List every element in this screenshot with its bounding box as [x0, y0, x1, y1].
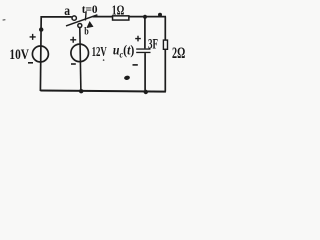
- stray speck top left: [3, 19, 6, 21]
- svg-text:uc(t): uc(t): [113, 43, 134, 61]
- junction dot on left branch: [39, 27, 43, 31]
- capacitor 3F bottom plate: [136, 52, 150, 53]
- voltage source 12V: [71, 44, 89, 62]
- node a: [72, 16, 76, 20]
- resistor R1 1ohm box: [113, 16, 129, 20]
- wire: right branch lower: [164, 50, 166, 92]
- speck after 12V: [103, 59, 105, 61]
- switch arrow head: [86, 21, 93, 28]
- wire: bottom rail: [40, 91, 165, 92]
- plus sign uc: [135, 36, 141, 42]
- svg-text:10V: 10V: [9, 47, 29, 63]
- resistor 2ohm box: [163, 40, 167, 49]
- junction dot at capacitor branch top: [143, 15, 147, 19]
- stray ink blob: [124, 75, 131, 80]
- node b: [78, 24, 82, 28]
- minus sign 12V: [71, 63, 76, 65]
- stray ink dot on top rail: [158, 13, 162, 17]
- voltage source 10V: [32, 46, 48, 62]
- svg-text:1Ω: 1Ω: [112, 2, 125, 17]
- capacitor 3F top plate: [136, 48, 150, 49]
- wire: capacitor branch upper: [144, 17, 146, 49]
- plus sign 12V: [70, 37, 76, 43]
- svg-text:t=0: t=0: [82, 2, 98, 16]
- minus sign 10V: [28, 62, 33, 64]
- svg-text:a: a: [64, 4, 70, 19]
- svg-text:3F: 3F: [148, 36, 158, 52]
- wire: left branch from bottom rail up through 10V source and top rail to node a: [40, 17, 71, 91]
- wire: right branch upper: [164, 17, 166, 40]
- junction dot bottom 12V branch: [79, 89, 83, 93]
- plus sign 10V: [30, 34, 36, 40]
- minus sign uc: [133, 64, 138, 66]
- junction dot bottom capacitor branch: [144, 90, 148, 94]
- wire: resistor 1ohm to top-right corner: [129, 16, 166, 18]
- wire: node b down through 12V source to bottom rail: [80, 27, 81, 91]
- wire: switch to resistor 1ohm: [93, 16, 113, 18]
- svg-text:2Ω: 2Ω: [172, 45, 185, 62]
- switch blade: [66, 15, 97, 26]
- wire: capacitor branch lower: [144, 53, 146, 92]
- svg-text:12V: 12V: [92, 45, 107, 60]
- svg-text:b: b: [84, 27, 89, 38]
- switch actuation tick: [84, 11, 87, 20]
